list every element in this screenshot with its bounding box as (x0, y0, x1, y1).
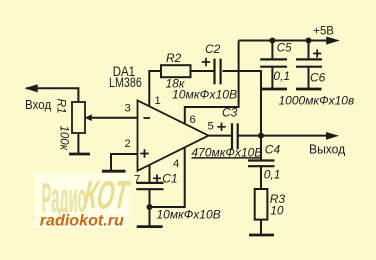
svg-text:10мкФх10В: 10мкФх10В (157, 208, 221, 222)
wire R1 wiper to pin 3 (91, 117, 138, 119)
ground bar under C1 (137, 225, 163, 228)
svg-text:C6: C6 (310, 71, 326, 85)
potentiometer R1 body (72, 102, 85, 133)
svg-text:C3: C3 (222, 106, 238, 120)
wire pin 1 to R2 (149, 71, 162, 107)
wire R3 to ground (260, 220, 262, 234)
+5V arrow head (326, 37, 340, 45)
ground bar pin 2 (102, 170, 126, 173)
capacitor C4 plates (248, 159, 275, 161)
capacitor C2 plates (213, 59, 215, 85)
svg-text:C1: C1 (162, 172, 177, 186)
wire C4 to R3 (260, 167, 262, 189)
wire pin 6 to +5V rail (185, 41, 239, 124)
input arrow head (25, 84, 38, 92)
svg-text:R2: R2 (166, 51, 182, 65)
svg-text:0,1: 0,1 (264, 167, 281, 181)
wire R2 to C2 (190, 70, 214, 72)
svg-text:10мкФх10В: 10мкФх10В (172, 87, 237, 101)
wire C3 to output node (239, 135, 262, 137)
resistor R3 body (255, 189, 268, 220)
wire C6 top lead (308, 41, 310, 59)
svg-text:1000мкФх10в: 1000мкФх10в (279, 94, 355, 108)
svg-text:LM386: LM386 (109, 75, 142, 90)
ground bar under R1 (69, 153, 90, 156)
svg-text:КОТ: КОТ (81, 173, 132, 217)
output arrow head (326, 132, 339, 140)
wire pin 7 to C1 (149, 165, 151, 182)
wire input (26, 87, 79, 89)
svg-text:7: 7 (134, 174, 140, 186)
svg-text:4: 4 (173, 158, 179, 170)
svg-text:10: 10 (270, 203, 284, 217)
wire C5 bottom lead (271, 68, 273, 88)
svg-text:Вход: Вход (25, 97, 52, 112)
svg-text:radiokot.ru: radiokot.ru (40, 213, 125, 230)
wire +5V rail (239, 40, 327, 42)
op-amp DA1 triangle (138, 100, 209, 170)
svg-text:+5В: +5В (313, 24, 334, 38)
node dot C6 rail (306, 38, 312, 44)
node dot C1/pin4 (147, 204, 153, 210)
ground bar under C6 (296, 88, 322, 91)
node dot C5 rail (269, 38, 275, 44)
plus sign C6 (313, 49, 321, 57)
plus sign C3 (217, 123, 225, 131)
wire output node to C4 (260, 136, 262, 160)
svg-text:0,1: 0,1 (273, 69, 290, 83)
wire C1 to ground (149, 190, 151, 226)
wire output node to output arrow (261, 135, 327, 137)
svg-text:1: 1 (155, 95, 161, 107)
wire C2 to feedback drop (223, 71, 262, 136)
svg-text:100к: 100к (58, 126, 70, 151)
plus sign pin 2 (140, 149, 149, 158)
wire C5 top lead (271, 41, 273, 59)
ground bar under C5 (261, 88, 288, 91)
svg-text:2: 2 (125, 138, 131, 150)
svg-text:6: 6 (190, 114, 196, 126)
plus sign C1 (153, 174, 161, 182)
plus sign C2 (202, 58, 210, 66)
wire C6 bottom lead (308, 68, 310, 88)
svg-text:C5: C5 (277, 43, 292, 55)
svg-text:C4: C4 (265, 143, 281, 157)
wire pin 4 to C1 node (150, 148, 185, 208)
wire pin 5 output to C3 (209, 135, 232, 137)
svg-text:C2: C2 (205, 42, 221, 56)
watermark backdrop (35, 174, 129, 229)
capacitor C6 plates (296, 58, 322, 60)
svg-text:R1: R1 (54, 99, 68, 114)
underline 470мкФх10В (192, 157, 261, 159)
wire R1 bottom to ground (77, 133, 79, 153)
wire pin 2 to ground (111, 154, 138, 171)
node dot output (258, 133, 264, 139)
svg-text:3: 3 (125, 103, 131, 115)
capacitor C3 plates (231, 123, 233, 149)
R1 wiper arrow head (85, 114, 92, 121)
capacitor C5 plates (260, 58, 287, 60)
wire input to R1 top (77, 87, 79, 102)
ground bar under R3 (249, 234, 274, 237)
minus sign pin 3 (144, 117, 151, 119)
capacitor C1 plates (136, 182, 163, 184)
svg-text:Выход: Выход (309, 142, 346, 157)
resistor R2 body (161, 65, 191, 77)
svg-text:5: 5 (208, 121, 214, 133)
